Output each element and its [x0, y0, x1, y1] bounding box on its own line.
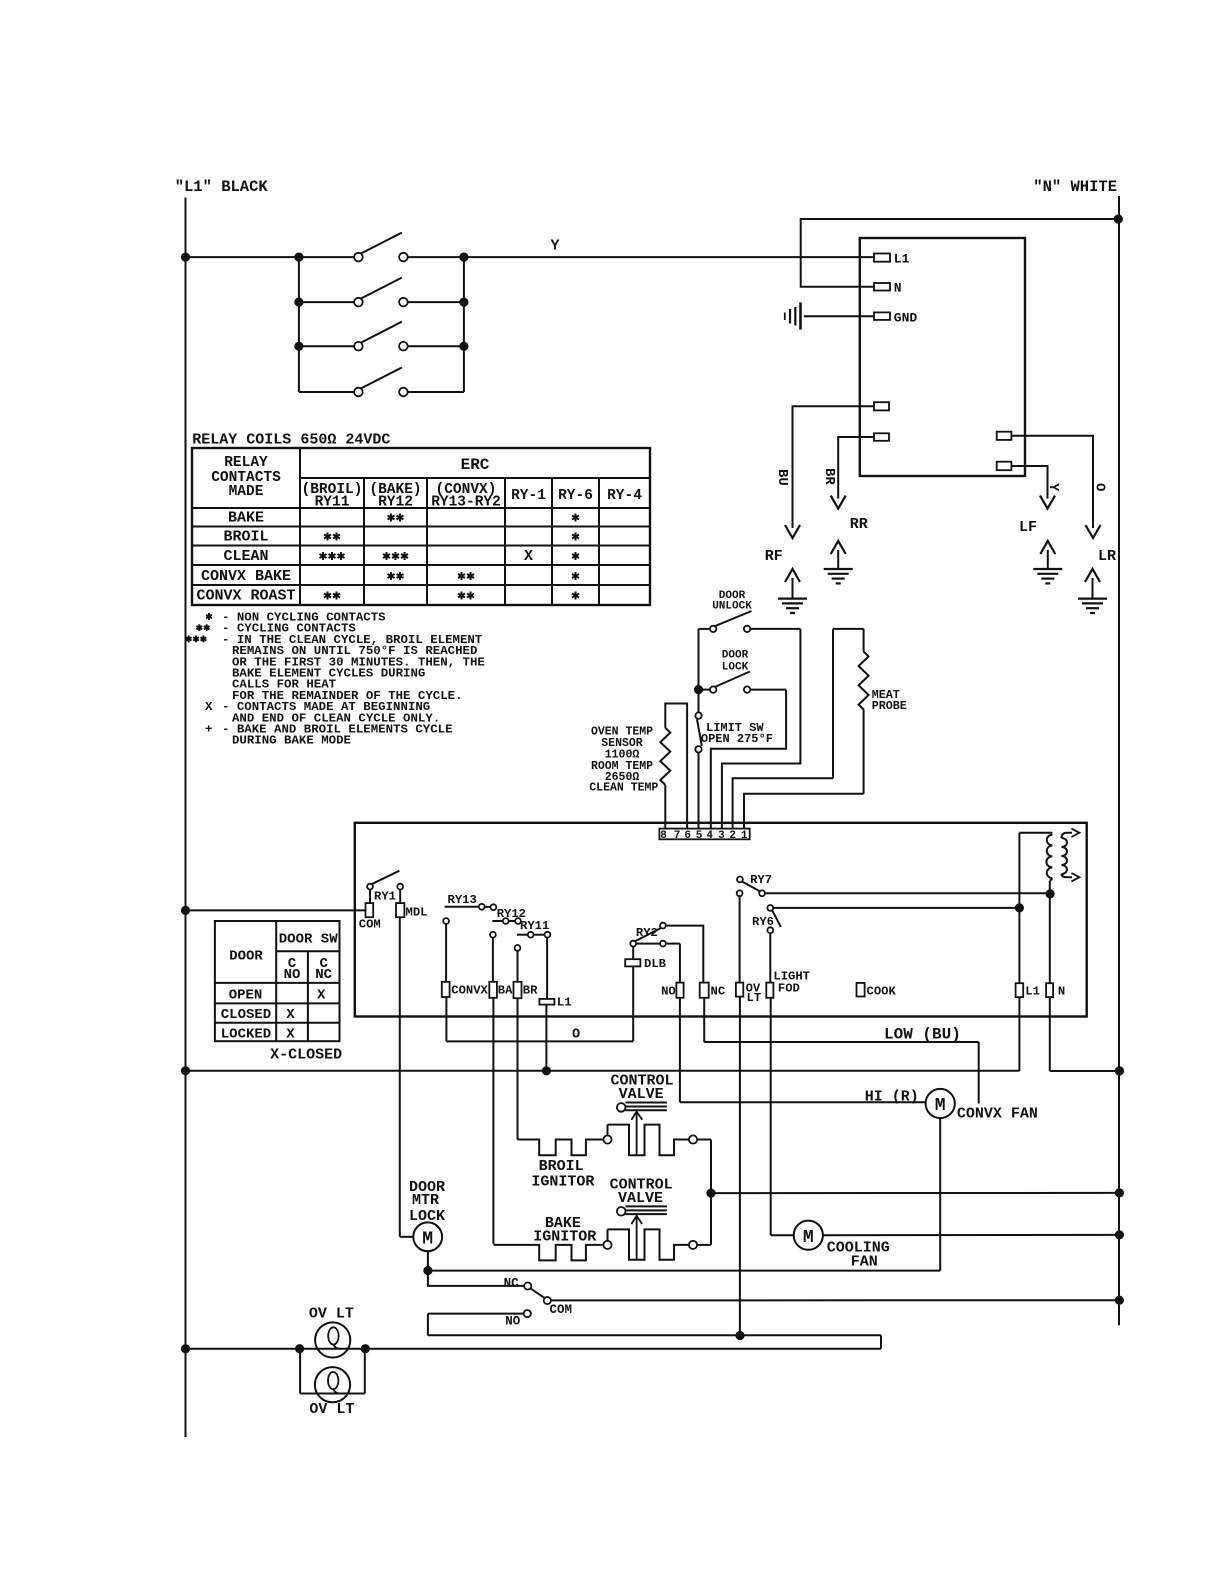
junction door lock common	[694, 685, 703, 694]
relay RY12 contacts	[492, 918, 520, 924]
svg-text:RY13-RY2: RY13-RY2	[431, 495, 501, 511]
svg-text:MTR: MTR	[412, 1192, 439, 1209]
node cell CLEAN/RY12 triple	[383, 552, 408, 560]
node RY7 label	[750, 873, 772, 887]
svg-text:N: N	[1058, 984, 1065, 998]
node N right label	[1058, 984, 1065, 998]
node O net label	[572, 1027, 580, 1042]
node table row label CLEAN	[223, 548, 268, 565]
node BU wire label	[774, 469, 790, 486]
svg-text:RY7: RY7	[750, 873, 772, 887]
svg-text:CONVX ROAST: CONVX ROAST	[196, 588, 295, 605]
oven selector switch row 4	[299, 368, 464, 397]
svg-text:M: M	[422, 1229, 433, 1249]
svg-text:IGNITOR: IGNITOR	[531, 1173, 594, 1190]
wire door switch common drop	[698, 629, 700, 690]
svg-text:NC: NC	[315, 967, 332, 983]
svg-text:X-CLOSED: X-CLOSED	[270, 1046, 342, 1063]
relay RY1 contacts	[367, 871, 403, 903]
node cell CLEAN/RY-1 X mark	[524, 548, 533, 565]
node COM label	[359, 917, 381, 931]
node RY6 label	[752, 915, 774, 929]
svg-text:OPEN 275°F: OPEN 275°F	[701, 732, 773, 746]
junction lamp tap right	[361, 1344, 370, 1353]
relay coil DLB branch	[625, 947, 640, 1042]
svg-text:"L1" BLACK: "L1" BLACK	[175, 178, 269, 196]
node table header RY-1	[511, 488, 546, 504]
ERC relay output box	[355, 823, 1087, 1017]
junction door motor node	[423, 1266, 432, 1275]
terminal N of ERC	[874, 283, 890, 291]
node door table header C NO	[284, 956, 301, 983]
svg-text:DOOR SW: DOOR SW	[279, 932, 338, 948]
resistor oven temp sensor	[660, 704, 687, 834]
wire HI (R) speed line	[680, 1101, 926, 1103]
node table row label BROIL	[223, 529, 268, 546]
node table header RELAY CONTACTS MADE	[211, 455, 281, 500]
junction COM wire at border	[181, 906, 190, 915]
node cell BAKE/RY12 cycling contacts	[388, 514, 404, 522]
junction N wire at right border	[1114, 214, 1123, 223]
svg-text:+: +	[205, 723, 212, 737]
switch door motor NO contact	[428, 1310, 531, 1335]
switch door unlock	[699, 611, 801, 632]
svg-text:COM: COM	[550, 1303, 573, 1317]
resistor meat probe	[833, 629, 869, 794]
terminal O of ERC (right high)	[997, 432, 1012, 440]
ERC electronic range control box	[860, 238, 1025, 476]
relay coil CONVX branch	[442, 918, 450, 1041]
svg-text:O: O	[572, 1027, 580, 1042]
node RR burner label	[850, 516, 868, 533]
junction lamp tap left	[295, 1344, 304, 1353]
svg-text:LOW (BU): LOW (BU)	[884, 1026, 961, 1044]
svg-text:M: M	[803, 1228, 814, 1248]
wire RY7 to transformer primary	[765, 892, 1050, 894]
node BA label	[498, 983, 513, 997]
junction cooling fan at border	[1115, 1230, 1124, 1239]
terminal GND of ERC	[874, 312, 890, 320]
svg-text:8: 8	[660, 830, 667, 842]
svg-text:NO: NO	[284, 967, 301, 983]
junction bus at left border	[181, 1066, 190, 1075]
svg-text:2: 2	[729, 830, 736, 842]
motor door lock M	[413, 1222, 442, 1270]
node cell CONVX BAKE/RY-6 non-cycling	[572, 572, 579, 580]
relay RY2 contacts	[630, 923, 666, 947]
wire cooling fan to right border	[823, 1234, 1120, 1236]
junction ignitor common	[706, 1189, 715, 1198]
svg-text:BROIL: BROIL	[223, 529, 268, 546]
pin label GND	[894, 311, 918, 326]
relay coil COM (door motor common)	[366, 903, 374, 917]
svg-text:CLEAN: CLEAN	[223, 548, 268, 565]
wire meat probe right to pin 1	[744, 794, 864, 833]
relay coil NO branch	[666, 944, 684, 1103]
relay RY11 contacts	[517, 932, 550, 938]
wire right border N white line	[1118, 196, 1120, 1325]
node table header (BAKE) RY12	[369, 482, 421, 511]
svg-text:RY1: RY1	[374, 890, 396, 904]
wire meat probe left to pin 2	[733, 778, 833, 833]
node COOLING FAN label	[827, 1239, 890, 1270]
table door switch grid	[215, 921, 340, 1041]
wire door lock to pin 4	[711, 690, 786, 833]
node CONVX label	[451, 983, 488, 997]
node BR wire label	[821, 468, 837, 485]
svg-text:4: 4	[706, 830, 713, 842]
svg-text:L1: L1	[894, 252, 910, 267]
node connector pin numbers 8 7 6 5 4 3 2 1	[660, 830, 748, 842]
wire main L1 feed to ERC L1 terminal	[186, 256, 875, 258]
wire COM to right border	[551, 1299, 1120, 1301]
node "L1" BLACK supply label	[175, 178, 269, 196]
node CONTROL VALVE label top	[611, 1073, 674, 1103]
svg-text:M: M	[935, 1096, 946, 1116]
node RY13 label	[448, 893, 477, 907]
junction main wire at left border	[181, 253, 190, 262]
connector ERC low-voltage strip pins 8-1	[659, 829, 749, 840]
junction bank right row1	[459, 253, 468, 262]
node LOW (BU) label	[884, 1026, 961, 1044]
node door table row LOCKED	[221, 1026, 296, 1042]
node DOOR LOCK label	[722, 650, 749, 674]
svg-text:VALVE: VALVE	[618, 1190, 663, 1207]
node BROIL IGNITOR label	[531, 1158, 594, 1190]
node L1 lamp coil label	[557, 995, 572, 1009]
svg-text:RELAY COILS 650Ω 24VDC: RELAY COILS 650Ω 24VDC	[192, 432, 390, 449]
wire left border L1 black line	[185, 198, 187, 1437]
svg-text:N: N	[894, 281, 902, 296]
table relay contacts grid	[192, 448, 650, 605]
wire switch-bank right rail	[463, 257, 465, 392]
terminal BU of ERC	[874, 402, 889, 410]
node BAKE IGNITOR label	[533, 1215, 596, 1245]
relay RY7 contacts	[737, 877, 765, 897]
node NO label	[505, 1314, 521, 1328]
switch limit sw open 275F	[695, 693, 702, 833]
svg-text:COOK: COOK	[867, 984, 897, 998]
junction L1 branch on bus	[542, 1066, 551, 1075]
node door table row CLOSED	[221, 1007, 296, 1023]
junction lamp line at border	[181, 1344, 190, 1353]
svg-text:COM: COM	[359, 917, 381, 931]
svg-text:UNLOCK: UNLOCK	[712, 601, 752, 613]
wire MDL to door motor	[400, 917, 414, 1237]
node DOOR MTR LOCK label	[409, 1179, 445, 1225]
node "N" WHITE supply label	[1033, 178, 1117, 196]
svg-text:DURING BAKE MODE: DURING BAKE MODE	[232, 734, 351, 748]
valve broil gas control valve	[617, 1103, 667, 1156]
node cell CONVX ROAST/RY-6 non-cycling	[572, 592, 579, 600]
node DOOR UNLOCK label	[712, 590, 752, 613]
node OV LT label top	[309, 1306, 354, 1323]
wire convx fan down to door motor line	[939, 1118, 941, 1271]
junction OV LT drop on hairpin	[735, 1331, 744, 1340]
svg-text:GND: GND	[894, 311, 918, 326]
svg-text:X: X	[205, 700, 213, 714]
wire door unlock NO to pin 3	[722, 629, 801, 833]
svg-text:1: 1	[741, 830, 748, 842]
switch door lock	[699, 672, 787, 693]
node door table row OPEN	[229, 988, 326, 1004]
relay coil BR branch	[514, 945, 522, 1140]
node cell CONVX BAKE/RY12 cycling	[388, 572, 404, 580]
svg-text:RY-6: RY-6	[558, 488, 593, 504]
svg-text:RY13: RY13	[448, 893, 477, 907]
svg-text:RELAY: RELAY	[224, 455, 268, 471]
ground chassis symbol at GND	[785, 303, 801, 330]
svg-text:CONVX: CONVX	[451, 983, 488, 997]
node table header RY-6	[558, 488, 593, 504]
svg-text:OV LT: OV LT	[309, 1401, 354, 1418]
junction N output at right border	[1115, 1066, 1124, 1075]
wire Y output with down arrow	[1011, 466, 1055, 509]
wire ignitors common to right border	[711, 1140, 1119, 1245]
wire lamp parallel branch	[300, 1349, 365, 1394]
node cell CLEAN/RY11 triple	[320, 552, 345, 560]
node O wire label	[1092, 483, 1108, 491]
junction bank left rail	[294, 342, 303, 351]
svg-text:Y: Y	[551, 238, 560, 255]
relay coil N output right	[1046, 881, 1119, 1071]
svg-text:RY11: RY11	[520, 919, 549, 933]
svg-text:BR: BR	[821, 468, 837, 485]
junction RY7 wire at primary	[1046, 889, 1055, 898]
svg-text:X: X	[286, 1007, 295, 1023]
svg-text:HI (R): HI (R)	[865, 1089, 919, 1106]
node LR burner label	[1098, 548, 1116, 565]
junction bank right rail	[459, 298, 468, 307]
svg-text:IGNITOR: IGNITOR	[533, 1228, 596, 1245]
relay coil OV LT branch	[736, 896, 743, 1335]
svg-text:X: X	[286, 1026, 295, 1042]
node cell CLEAN/RY-6 non-cycling	[572, 552, 579, 560]
svg-text:VALVE: VALVE	[619, 1086, 664, 1103]
svg-text:MADE: MADE	[229, 484, 264, 500]
node RF burner label	[765, 548, 783, 565]
svg-text:CONVX BAKE: CONVX BAKE	[201, 568, 291, 585]
svg-text:LT: LT	[747, 991, 762, 1005]
svg-text:LOCK: LOCK	[722, 662, 749, 674]
svg-text:LR: LR	[1098, 548, 1116, 565]
node NC label	[504, 1277, 520, 1291]
node RY12 label	[497, 907, 526, 921]
node HI (R) label	[865, 1089, 919, 1106]
wire BR output with down arrow	[831, 437, 874, 509]
node cell CONVX ROAST/RY11 cycling	[324, 592, 340, 600]
node table header (CONVX) RY13-RY2	[431, 482, 501, 511]
terminal L1 of ERC	[874, 254, 890, 262]
valve bake gas control valve	[617, 1206, 667, 1259]
node CONTROL VALVE label bottom	[610, 1177, 673, 1207]
junction bus at right border	[1115, 1066, 1124, 1075]
node RY11 label	[520, 919, 549, 933]
node cell BROIL/RY-6 non-cycling	[572, 533, 579, 541]
node door table header DOOR	[229, 949, 263, 965]
svg-text:RF: RF	[765, 548, 783, 565]
node BR label	[523, 983, 538, 997]
oven selector switch row 1	[354, 233, 408, 262]
wire RY6 to L1 lamp line	[773, 907, 1019, 909]
svg-text:MDL: MDL	[406, 905, 428, 919]
node DLB label	[644, 957, 667, 971]
relay coil L1 output right	[1016, 833, 1024, 1071]
svg-text:DOOR: DOOR	[229, 949, 263, 965]
svg-text:NC: NC	[504, 1277, 520, 1291]
motor convection fan	[926, 1089, 955, 1118]
relay coil MDL (motor door lock)	[396, 903, 404, 917]
ground LR earth symbol	[1078, 569, 1107, 613]
lamp oven light bottom	[315, 1367, 350, 1402]
junction RY6 wire at L1 vertical	[1015, 903, 1024, 912]
svg-text:CLEAN TEMP: CLEAN TEMP	[589, 782, 658, 795]
svg-text:NC: NC	[711, 984, 726, 998]
wire LOW (BU) speed line	[704, 1042, 979, 1104]
heater bake ignitor	[493, 1229, 711, 1260]
svg-text:RR: RR	[850, 516, 868, 533]
pin label L1	[894, 252, 910, 267]
svg-text:RY12: RY12	[378, 495, 413, 511]
svg-text:RY-1: RY-1	[511, 488, 546, 504]
node oven temp sensor labels	[589, 726, 658, 795]
oven selector switch row 2	[299, 278, 464, 307]
node relay coils title	[192, 432, 390, 449]
node LIGHT FOD label	[773, 969, 810, 995]
svg-text:NO: NO	[505, 1314, 521, 1328]
node table header ERC	[461, 456, 490, 474]
svg-text:6: 6	[684, 830, 691, 842]
pin label N	[894, 281, 902, 296]
node cell CONVX ROAST/RY13-RY2 cycling	[458, 592, 474, 600]
oven selector switch row 3	[299, 322, 464, 351]
node table row label BAKE	[228, 510, 264, 527]
node OV LT coil label	[746, 982, 762, 1006]
junction ignitor wire at border	[1115, 1188, 1124, 1197]
svg-text:X: X	[317, 988, 326, 1004]
node LF burner label	[1019, 519, 1037, 536]
terminal BR of ERC	[874, 433, 889, 441]
svg-text:RY6: RY6	[752, 915, 774, 929]
svg-text:3: 3	[718, 830, 725, 842]
svg-text:X: X	[524, 548, 533, 565]
node L1 right label	[1025, 984, 1040, 998]
node COM label	[550, 1303, 573, 1317]
node NC coil label	[711, 984, 726, 998]
svg-text:LOCKED: LOCKED	[221, 1026, 271, 1042]
node table row label CONVX ROAST	[196, 588, 295, 605]
node MEAT PROBE label	[872, 688, 907, 713]
svg-text:BA: BA	[498, 983, 513, 997]
node cell CONVX BAKE/RY13-RY2 cycling	[458, 572, 474, 580]
relay coil COOK indicator	[857, 983, 865, 997]
svg-text:L1: L1	[557, 995, 572, 1009]
svg-text:RY11: RY11	[315, 495, 350, 511]
terminal Y of ERC (right low)	[997, 462, 1012, 471]
svg-text:LF: LF	[1019, 519, 1037, 536]
transformer low-voltage T1	[1019, 829, 1079, 882]
wire O output with down arrow	[1011, 436, 1100, 538]
svg-text:CONVX FAN: CONVX FAN	[957, 1105, 1038, 1122]
node table row label CONVX BAKE	[201, 568, 291, 585]
lamp oven light top	[315, 1322, 350, 1357]
svg-text:FOD: FOD	[778, 982, 800, 996]
node door table header C NC	[315, 956, 332, 983]
ground LF earth symbol	[1033, 541, 1062, 583]
node MDL label	[406, 905, 428, 919]
wire RY2 top throw to NC coil	[666, 926, 704, 983]
node NO coil label	[661, 984, 676, 998]
svg-text:LOCK: LOCK	[409, 1208, 445, 1225]
junction bank left row1	[294, 253, 303, 262]
svg-text:O: O	[1092, 483, 1108, 491]
node Y wire label	[551, 238, 560, 255]
junction COM at right border	[1115, 1296, 1124, 1305]
node X-CLOSED legend	[270, 1046, 342, 1063]
svg-text:DOOR: DOOR	[722, 650, 749, 662]
svg-text:BAKE: BAKE	[228, 510, 264, 527]
wire N terminal to N white line	[801, 219, 1119, 287]
svg-text:RY-4: RY-4	[607, 488, 642, 504]
node cell BAKE/RY-6 non-cycling	[572, 514, 579, 522]
relay RY13 contacts	[445, 904, 497, 910]
node table footnotes legend	[186, 611, 485, 748]
node Y wire label right	[1045, 483, 1061, 492]
node table header (BROIL) RY11	[302, 482, 363, 511]
junction bank left rail	[294, 298, 303, 307]
svg-text:BU: BU	[774, 469, 790, 486]
svg-text:OPEN: OPEN	[229, 988, 263, 1004]
svg-text:PROBE: PROBE	[872, 699, 907, 713]
wire left border to COM coil	[186, 909, 366, 911]
relay coil LIGHT FOD branch	[766, 933, 793, 1235]
ground RR earth symbol	[824, 541, 853, 583]
relay coil BA branch	[489, 932, 497, 1244]
svg-text:OV LT: OV LT	[309, 1306, 354, 1323]
wire BU output with down arrow	[785, 406, 874, 538]
node RY1 label	[374, 890, 396, 904]
svg-text:NO: NO	[661, 984, 676, 998]
node OV LT label bottom	[309, 1401, 354, 1418]
svg-text:L1: L1	[1025, 984, 1040, 998]
ground RF earth symbol	[778, 569, 807, 613]
svg-text:Y: Y	[1045, 483, 1061, 492]
node door table header DOOR SW	[279, 932, 338, 948]
wire O net DLB to CONVX	[446, 1040, 633, 1042]
wire GND terminal lead	[804, 315, 874, 317]
svg-text:7: 7	[674, 830, 681, 842]
wire switch-bank left rail	[298, 257, 300, 392]
wire main neutral bus	[186, 1070, 1020, 1072]
wire NO hairpin to lamp line	[186, 1335, 882, 1348]
relay RY6 contacts	[767, 905, 780, 933]
svg-text:ERC: ERC	[461, 456, 490, 474]
svg-text:RY2: RY2	[636, 926, 658, 940]
switch door motor NC-COM	[428, 1271, 551, 1305]
relay coil L1 lamp branch	[539, 938, 554, 1071]
node CONVX FAN label	[957, 1105, 1038, 1122]
svg-text:FAN: FAN	[851, 1253, 878, 1270]
junction bank right rail	[459, 342, 468, 351]
node RY2 label	[636, 926, 658, 940]
node LIMIT SW label	[701, 721, 773, 746]
svg-text:CLOSED: CLOSED	[221, 1007, 271, 1023]
svg-text:5: 5	[696, 830, 703, 842]
svg-text:BR: BR	[523, 983, 538, 997]
relay coil NC branch	[700, 983, 709, 1042]
heater broil ignitor	[518, 1125, 712, 1156]
node COOK label	[867, 984, 897, 998]
